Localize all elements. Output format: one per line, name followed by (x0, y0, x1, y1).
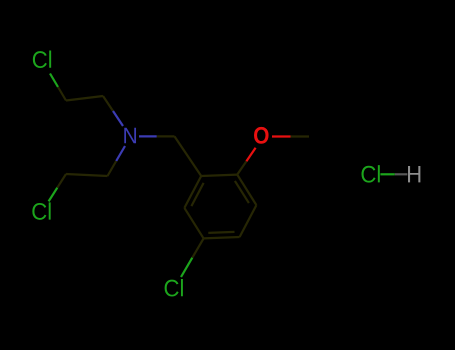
wire N-C3 lower chloroethyl: C half (108, 161, 117, 176)
wire Cl-C1 upper chloroethyl: C half (58, 87, 66, 101)
benzene ring edge V6-V1 (184, 176, 201, 208)
wire O-CH3 methoxy: O half (272, 135, 291, 137)
atom label Cl of HCl salt (362, 165, 380, 182)
wire HCl bond: Cl half (380, 173, 394, 175)
wire C4-Cl lower chloroethyl: Cl half (49, 188, 58, 202)
atom label H of HCl salt (408, 166, 420, 182)
benzene ring edge V3-V4 (240, 205, 257, 237)
wire C2-N: N half (113, 111, 123, 126)
wire N-C3 lower chloroethyl: N half (116, 146, 125, 161)
wire HCl bond: H half (395, 173, 408, 175)
benzene double bond inner line V6-V1 (191, 183, 203, 206)
wire Cl-C1 upper chloroethyl: Cl half (50, 74, 58, 88)
atom label Cl upper chloroethyl (33, 51, 51, 68)
wire C4-Cl lower chloroethyl: C half (57, 174, 66, 188)
atom label N amine (124, 128, 136, 144)
wire C3-C4 lower chloroethyl (66, 174, 108, 176)
benzene ring edge V5-V6 (184, 208, 203, 239)
wire ring V2-O methoxy: C half (237, 161, 246, 174)
atom label Cl lower chloroethyl (32, 202, 50, 219)
benzene double bond inner line V2-V3 (235, 181, 249, 203)
benzene double bond inner line V4-V5 (208, 232, 234, 233)
atom label Cl ring substituent (165, 279, 183, 296)
benzene ring edge V2-V3 (237, 175, 256, 206)
benzene ring edge V1-V2 (201, 175, 237, 176)
wire ring V2-O methoxy: O half (246, 148, 255, 161)
benzene ring edge V4-V5 (204, 237, 240, 238)
wire ring V5-Cl: Cl half (181, 258, 192, 277)
wire CH2-ring C1' (175, 136, 202, 176)
wire C2-N: C half (103, 96, 113, 111)
wire N-CH2 benzylic: N half (139, 135, 157, 137)
atom label O methoxy (254, 127, 269, 144)
wire O-CH3 methoxy: C half (291, 135, 310, 137)
wire ring V5-Cl: C half (192, 238, 203, 257)
wire C1-C2 upper chloroethyl (66, 96, 103, 101)
wire N-CH2 benzylic: C half (157, 135, 175, 137)
